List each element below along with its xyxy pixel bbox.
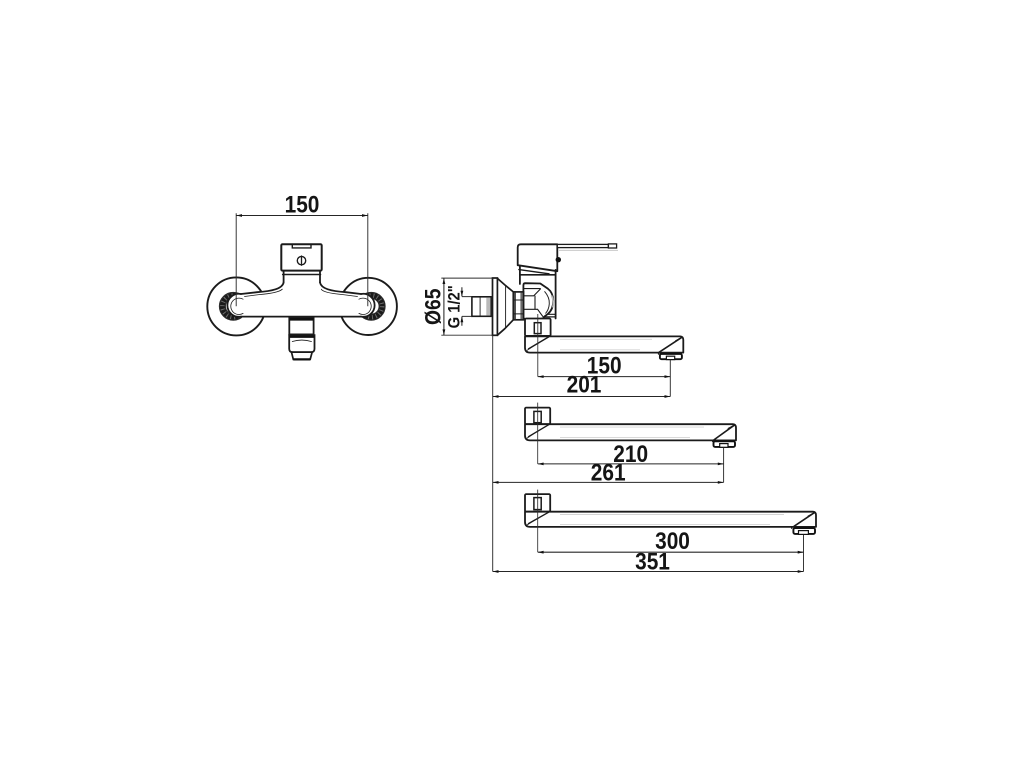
left arm end cap — [227, 294, 241, 317]
outlet tip bold bottom — [293, 358, 310, 360]
aerator dark top seam — [290, 336, 315, 338]
spout 300 inner gray reflections — [560, 515, 784, 525]
nut facet lines — [513, 300, 523, 314]
spout 210 inner gray reflections — [560, 427, 704, 438]
valve dome inner arcs — [545, 291, 550, 313]
spout 300 mount block — [525, 494, 550, 512]
svg-text:Ø65: Ø65 — [421, 289, 446, 325]
G1/2 extension ticks — [462, 297, 472, 317]
spout 150 aerator tab — [666, 356, 674, 359]
right wall flange escutcheon (front) — [340, 278, 397, 335]
union nut (side) — [513, 292, 523, 320]
handle lever tip — [608, 244, 616, 248]
mount set screw — [534, 323, 541, 334]
front 150 dimension line — [236, 215, 368, 217]
handle lever shadow — [559, 249, 618, 251]
dia65 extension lines — [441, 278, 492, 335]
spout mount block (side) — [525, 319, 551, 336]
spout300 axis extension line — [537, 490, 539, 553]
downspout dark seam — [290, 318, 314, 321]
spout 300 aerator tab — [799, 531, 809, 535]
spout150 axis extension line — [537, 314, 539, 377]
body seam line — [283, 274, 321, 276]
spout 210 aerator tab — [720, 444, 728, 448]
spout 300 aerator — [793, 528, 815, 534]
spout 150 aerator — [660, 354, 682, 359]
spout 150 arm — [525, 336, 683, 352]
spout 210 arm — [525, 424, 736, 440]
svg-text:261: 261 — [591, 459, 626, 486]
spout 210 left chamfer — [529, 425, 549, 437]
valve union nut with dome (side) — [523, 283, 553, 319]
svg-text:150: 150 — [285, 191, 320, 218]
G1/2 nipple — [472, 297, 491, 317]
outlet tip (front) — [292, 352, 313, 359]
300 arrows — [538, 551, 804, 554]
210 dimension line — [538, 463, 724, 465]
cartridge cover (front) — [281, 244, 321, 270]
body housing (side) — [520, 266, 556, 318]
left union nut shaded ring — [219, 292, 247, 320]
261 dimension line — [493, 481, 724, 483]
side 150 dimension line — [538, 376, 671, 378]
351 dimension line — [493, 571, 804, 573]
body sides below cover — [284, 271, 320, 283]
right union nut shaded ring — [357, 292, 385, 320]
G1/2 arrows — [461, 291, 464, 322]
spout300 aerator extension line — [803, 535, 805, 572]
front 150 arrows — [236, 214, 368, 217]
201 arrows — [493, 395, 671, 398]
cover screw — [297, 256, 305, 264]
210 arrows — [538, 463, 724, 466]
body seam — [520, 274, 556, 276]
right arm top edge — [320, 283, 361, 295]
wall plate — [493, 278, 498, 335]
left wall flange escutcheon (front) — [207, 277, 265, 335]
spout 300 set screw — [534, 498, 541, 510]
351 arrows — [493, 570, 804, 573]
svg-text:351: 351 — [635, 548, 670, 575]
aerator housing (front) — [289, 335, 314, 352]
arm bottom edge — [241, 316, 361, 318]
spout 210 mount block — [525, 408, 550, 425]
wall cone — [497, 278, 513, 335]
spout 300 outlet step — [791, 527, 793, 528]
dia65 dimension line — [443, 278, 445, 335]
spout 300 right chamfer — [794, 513, 814, 527]
261 arrows — [493, 481, 724, 484]
left arm top edge — [241, 283, 284, 295]
spout 210 right chamfer — [714, 425, 734, 440]
wall plane extension line — [492, 335, 494, 571]
right arm end cap — [361, 294, 375, 317]
cone front edge — [505, 286, 507, 328]
spout150 aerator extension line — [669, 360, 671, 397]
svg-text:201: 201 — [567, 371, 602, 398]
spout210 axis extension line — [537, 403, 539, 464]
dia65 arrows — [443, 278, 446, 335]
handle screw dot — [556, 257, 561, 262]
side 150 arrows — [538, 375, 671, 378]
spout 150 right chamfer diagonals — [659, 338, 681, 353]
spout 300 left chamfer — [529, 512, 549, 523]
spout 210 set screw — [534, 411, 541, 422]
left arm end inner arc — [231, 298, 243, 314]
spout 300 arm — [525, 512, 816, 527]
right arm end inner arc — [359, 298, 371, 314]
faucet body + arms silhouette (front) — [227, 271, 374, 317]
valve facet lines — [524, 284, 548, 296]
handle lever bar — [557, 244, 608, 247]
spout 150 inner gray reflections — [560, 339, 652, 350]
aerator highlight — [292, 340, 311, 341]
svg-text:G 1/2": G 1/2" — [446, 285, 464, 328]
right arm inner highlight — [321, 289, 357, 296]
spout 210 aerator — [714, 441, 736, 447]
nut dark shading — [514, 292, 516, 319]
front 150 extension lines — [236, 213, 368, 306]
downspout body (front) — [289, 317, 313, 334]
body ledge right of mount — [544, 314, 556, 317]
spout 210 outlet step — [712, 440, 714, 441]
nipple shading — [486, 298, 490, 316]
nipple inner line — [479, 297, 481, 317]
left arm inner highlight — [245, 289, 283, 296]
spout 150 outlet step — [658, 353, 660, 354]
cover notch — [292, 245, 311, 248]
201 dimension line — [493, 396, 671, 398]
300 dimension line — [538, 551, 804, 553]
handle cap (side) — [518, 244, 558, 271]
G1/2 dimension lines — [461, 287, 463, 326]
spout210 aerator extension line — [723, 448, 725, 483]
handle base second slant — [519, 270, 549, 274]
spout 150 left chamfer diagonals — [529, 337, 549, 349]
